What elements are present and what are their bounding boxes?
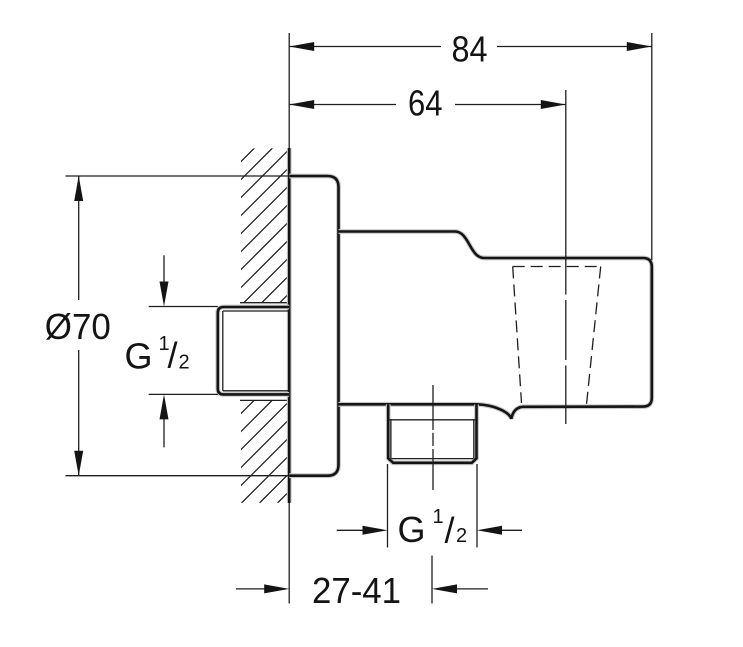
centerline outlet — [432, 385, 434, 490]
arrow 84 left — [289, 42, 314, 51]
arrow inlet top — [160, 282, 169, 307]
wall hole edge bottom — [240, 399, 289, 401]
svg-text:27-41: 27-41 — [312, 570, 401, 611]
svg-text:/: / — [168, 335, 178, 376]
wall face line — [288, 33, 290, 148]
hidden cone dashed top — [513, 266, 601, 268]
svg-text:64: 64 — [408, 83, 443, 124]
extension line inlet bottom — [149, 393, 218, 395]
text G1/2 inlet — [125, 333, 190, 377]
inlet nipple G1/2 — [218, 307, 289, 394]
svg-text:2: 2 — [456, 525, 467, 547]
dimension G1/2 outlet right arrow — [501, 529, 522, 531]
dimension 27-41 left arrow — [236, 588, 265, 590]
extension line outlet right — [476, 464, 478, 548]
outlet thread lines — [388, 420, 476, 459]
dimension G1/2 inlet arrows — [163, 255, 165, 447]
inlet thread root lines — [223, 311, 289, 391]
arrow inlet bottom — [160, 394, 169, 419]
extension line outlet left — [387, 464, 389, 548]
wall hatching — [0, 148, 651, 503]
flange escutcheon — [289, 176, 338, 476]
centerline cup — [565, 90, 567, 424]
text G1/2 outlet — [398, 506, 468, 551]
arrow 84 right — [627, 42, 652, 51]
hidden cone dashed right — [587, 267, 601, 405]
dimension G1/2 outlet left arrow — [337, 529, 363, 531]
extension line dia70 top — [66, 175, 290, 177]
dimension dia70 line — [78, 176, 80, 476]
svg-text:1: 1 — [433, 506, 444, 528]
arrow 64 right — [541, 100, 566, 109]
arrow dia70 top — [74, 176, 83, 201]
svg-text:G: G — [398, 509, 426, 550]
outlet nipple G1/2 — [388, 404, 476, 463]
extension line right edge — [651, 33, 653, 260]
arrow 64 left — [289, 100, 314, 109]
wall hole edge top — [240, 302, 289, 304]
svg-text:/: / — [445, 510, 455, 551]
svg-text:Ø70: Ø70 — [45, 306, 111, 347]
extension line inlet top — [149, 306, 218, 308]
svg-text:G: G — [125, 336, 153, 377]
dimension 27-41 right arrow — [456, 588, 488, 590]
extension line outlet center — [431, 556, 433, 604]
hidden cone dashed left — [513, 267, 522, 404]
body outline — [339, 232, 652, 419]
dimension 84 line — [289, 46, 652, 48]
extension line dia70 bottom — [66, 475, 290, 477]
arrow dia70 bottom — [74, 451, 83, 476]
svg-text:2: 2 — [179, 352, 190, 374]
svg-text:84: 84 — [452, 29, 488, 70]
dimension 64 line — [289, 104, 566, 106]
